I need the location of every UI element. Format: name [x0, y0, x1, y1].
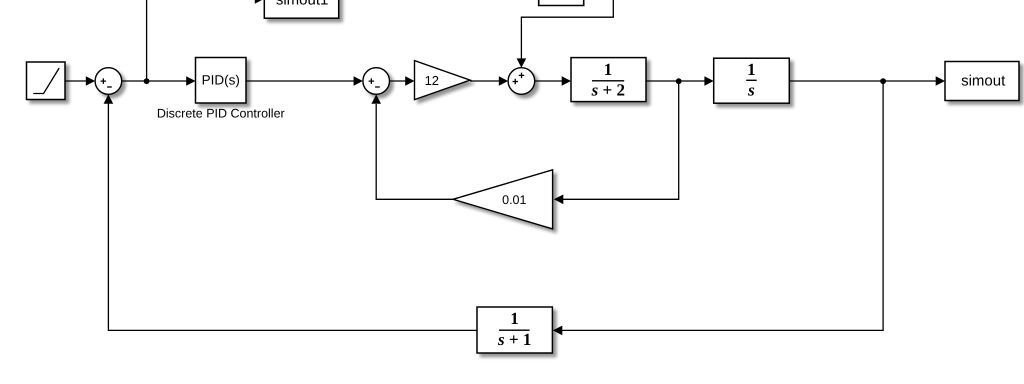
wire S2 to gain 12: [390, 76, 415, 86]
feedback wire from right junction down to 1/(s+1): [553, 81, 883, 335]
svg-text:1: 1: [747, 60, 756, 79]
wire gain 0.01 output up into S2 bottom: [371, 94, 453, 199]
branch wire up to simout1: [147, 0, 265, 81]
wire S1 to PID: [122, 76, 196, 86]
transfer fcn block 1/s: [714, 58, 790, 103]
svg-text:simout: simout: [961, 72, 1006, 89]
wire 1/s to simout: [790, 76, 945, 86]
svg-text:PID(s): PID(s): [202, 73, 240, 88]
svg-text:12: 12: [425, 73, 439, 88]
summing junction S1: [95, 68, 122, 95]
ramp source block: [27, 62, 66, 100]
wire 1/(s+2) to 1/s: [647, 76, 714, 86]
PID controller block: [196, 58, 247, 104]
junction node to 0.01 feedback: [676, 78, 682, 84]
svg-text:s + 1: s + 1: [497, 330, 531, 349]
svg-text:s: s: [747, 81, 755, 100]
svg-text:1: 1: [510, 309, 519, 328]
wire S1 bottom feedback vertical: [104, 94, 114, 104]
wire gain 12 to sum S3: [470, 76, 508, 86]
to-workspace block simout1 (clipped at top edge): [264, 0, 338, 18]
to-workspace block simout: [945, 62, 1019, 101]
gain block 12: [415, 61, 471, 100]
junction node to 1/(s+1) feedback: [880, 78, 886, 84]
svg-text:Discrete PID Controller: Discrete PID Controller: [157, 107, 285, 121]
summing junction S3: [508, 68, 535, 95]
junction node at branch to simout1: [144, 78, 150, 84]
svg-text:s + 2: s + 2: [591, 80, 625, 99]
wire from top source into S3 top: [517, 0, 614, 68]
gain block 0.01 (points left): [453, 170, 553, 229]
transfer fcn block 1/(s+2): [571, 58, 646, 102]
feedback wire from junction down to gain 0.01: [554, 81, 679, 204]
svg-text:0.01: 0.01: [502, 193, 526, 207]
svg-text:simout1: simout1: [276, 0, 329, 8]
clipped wire loop of top-center block: [539, 0, 584, 6]
wire 1/(s+1) output left and up into S1 bottom: [108, 104, 477, 330]
wire S3 to transfer fcn 1/(s+2): [535, 76, 571, 86]
wire ramp to sum S1: [65, 76, 95, 86]
summing junction S2: [363, 68, 390, 95]
wire PID to sum S2: [247, 76, 363, 86]
transfer fcn block 1/(s+1): [477, 307, 552, 353]
svg-text:1: 1: [604, 60, 613, 79]
